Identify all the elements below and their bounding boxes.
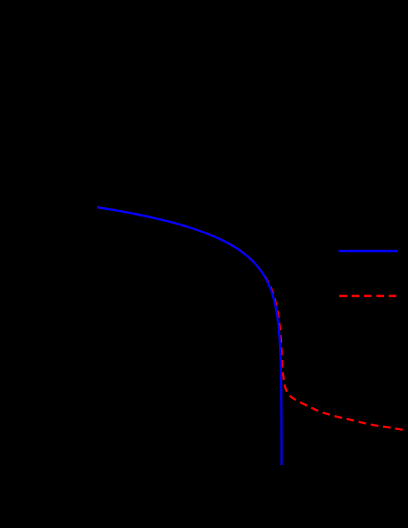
blue solid curve (series 1): descends, vertical drop at x=281.55 ending y=465 <box>97 207 282 465</box>
legend sample line: blue solid <box>339 250 398 252</box>
red dashed curve (series 2): follows blue curve, bends right at knee toward lower asymptote <box>97 207 405 430</box>
legend sample line: red dashed <box>339 295 396 297</box>
